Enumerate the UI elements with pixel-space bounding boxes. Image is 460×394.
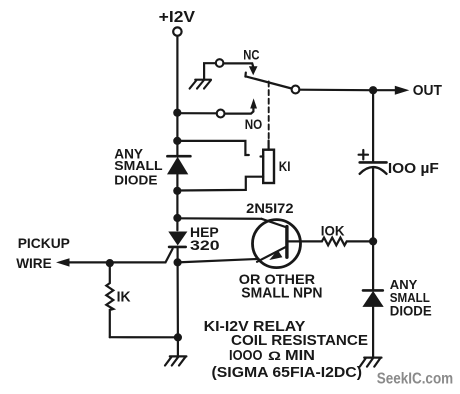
wire: junction to OUT arrow — [377, 89, 396, 91]
diode D1 (any small diode, cathode bar up) — [167, 155, 190, 158]
ground (NC) — [190, 80, 211, 89]
svg-text:IOK: IOK — [321, 224, 345, 239]
pickup wire arrow (points left) — [56, 258, 70, 266]
svg-text:IOOO: IOOO — [229, 348, 263, 364]
ground (bottom left) — [165, 356, 186, 365]
svg-text:PICKUP: PICKUP — [18, 235, 70, 251]
relay contact NO terminal circle — [217, 110, 225, 118]
wire: right rail capacitor to diode — [372, 168, 374, 289]
svg-text:+I2V: +I2V — [159, 9, 196, 26]
svg-text:2N5I72: 2N5I72 — [246, 200, 294, 216]
wire: right rail from OUT junction to capacitor — [372, 94, 374, 161]
svg-text:320: 320 — [190, 237, 220, 253]
wire: junction to emitter — [178, 259, 259, 263]
svg-text:SMALL: SMALL — [114, 158, 162, 173]
svg-text:(SIGMA 65FIA-I2DC): (SIGMA 65FIA-I2DC) — [212, 365, 363, 381]
node: junction pickup/diode/emitter — [174, 258, 182, 266]
svg-text:DIODE: DIODE — [390, 304, 432, 319]
wire: rail between diodes — [176, 174, 178, 230]
svg-text:SeekIC.com: SeekIC.com — [377, 371, 454, 388]
node: junction to transistor collector — [173, 214, 181, 222]
dashed mechanical link from armature to relay coil — [268, 82, 270, 141]
wire: relay coil upper lead — [177, 141, 249, 155]
wire: pickup line — [69, 249, 173, 263]
ground (bottom right) — [360, 358, 382, 367]
relay common pole terminal circle — [292, 86, 300, 94]
node: junction 10K to right rail — [369, 237, 377, 245]
NC contact arrow (points down) — [249, 66, 258, 75]
svg-text:MIN: MIN — [285, 348, 315, 364]
svg-text:SMALL NPN: SMALL NPN — [241, 286, 322, 302]
svg-text:WIRE: WIRE — [16, 255, 52, 271]
node: junction to NO contact — [173, 109, 181, 117]
wire: collector wire — [177, 217, 261, 220]
relay coil K1 box — [263, 150, 274, 183]
wire: base lead — [287, 240, 322, 242]
node: junction pickup/1K — [106, 259, 114, 267]
wire: pole to OUT junction — [299, 89, 369, 92]
transistor Q1 2N5172 circle — [253, 220, 301, 268]
diode D2 HEP 320 (pointing down) — [168, 232, 187, 246]
+12V terminal circle — [173, 27, 181, 35]
wire: 1K bottom to ground junction — [110, 336, 178, 338]
wire: rail lower segment — [177, 262, 179, 337]
svg-text:IK: IK — [117, 290, 131, 306]
node: OUT junction — [369, 86, 377, 94]
wire: to NO contact — [177, 112, 216, 114]
transistor emitter arrow — [269, 250, 282, 260]
svg-text:DIODE: DIODE — [114, 172, 157, 187]
wire: relay coil top stub — [268, 141, 270, 150]
wire: NO contact stub — [225, 107, 254, 114]
wire: coil left nub — [261, 155, 264, 157]
svg-text:Ω: Ω — [268, 351, 281, 363]
relay armature switch arm — [245, 73, 291, 89]
wire: diode to ground — [372, 307, 374, 357]
capacitor C1 top plate — [360, 161, 387, 164]
diode D3 (any small diode, cathode bar up) — [363, 289, 383, 292]
svg-text:COIL RESISTANCE: COIL RESISTANCE — [231, 333, 368, 349]
svg-text:OR OTHER: OR OTHER — [239, 271, 315, 287]
wire: HEP320 cathode lead — [177, 247, 179, 259]
capacitor C1 plus sign — [359, 150, 368, 159]
transistor emitter lead — [257, 246, 287, 261]
node: junction at relay coil lower lead — [173, 187, 181, 195]
svg-text:OUT: OUT — [413, 83, 442, 99]
transistor collector lead — [262, 219, 288, 228]
svg-text:NO: NO — [245, 116, 263, 132]
wire: relay coil lower lead — [177, 177, 263, 191]
svg-text:KI: KI — [279, 158, 291, 174]
relay contact NC terminal circle — [216, 59, 224, 67]
capacitor C1 curved plate — [360, 167, 387, 174]
wire: NC contact stub — [223, 63, 253, 66]
node: ground junction — [174, 333, 182, 341]
node: junction to relay coil top — [173, 137, 181, 145]
transistor base bar — [285, 227, 288, 258]
resistor R1 1K (vertical zigzag) — [106, 263, 113, 337]
wire: +12V rail upper segment — [176, 36, 178, 155]
OUT arrow — [395, 86, 410, 95]
resistor R2 10K (horizontal zigzag) — [322, 238, 369, 246]
svg-text:IOO µF: IOO µF — [388, 161, 439, 177]
svg-text:NC: NC — [243, 48, 259, 63]
wire: NC to ground — [204, 63, 216, 79]
NO contact arrow (points up) — [250, 98, 257, 108]
wire: ground stem — [177, 337, 179, 356]
